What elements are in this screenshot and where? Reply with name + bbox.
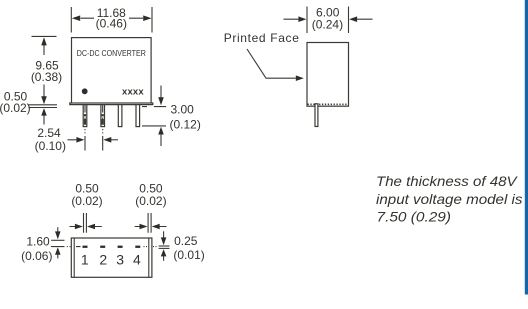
svg-text:(0.01): (0.01) bbox=[173, 248, 204, 262]
front view body bbox=[72, 38, 152, 103]
svg-text:3: 3 bbox=[116, 251, 124, 267]
svg-text:7.50 (0.29): 7.50 (0.29) bbox=[377, 208, 452, 224]
dimension 11.68 (0.46) width, front view bbox=[71, 7, 152, 33]
dimension 0.50 (0.02) right wall width bbox=[135, 213, 167, 233]
svg-text:(0.02): (0.02) bbox=[0, 101, 31, 115]
svg-text:DC-DC CONVERTER: DC-DC CONVERTER bbox=[77, 48, 146, 58]
pin 3 bbox=[118, 105, 122, 127]
bottom view body bbox=[71, 238, 152, 277]
dimension 6.00 (0.24) side view width bbox=[284, 7, 373, 34]
pin 2 bbox=[101, 105, 105, 127]
svg-text:1: 1 bbox=[81, 251, 89, 267]
dimension 1.60 (0.06) bbox=[51, 227, 64, 258]
pin 4 bbox=[136, 105, 140, 127]
dimension 0.50 (0.02) standoff lines bbox=[29, 105, 58, 125]
dimension 0.25 (0.01) pin thickness bbox=[159, 231, 170, 260]
dimension 9.65 (0.38) height, front view bbox=[32, 36, 57, 97]
svg-text:4: 4 bbox=[133, 251, 141, 267]
svg-text:2: 2 bbox=[99, 251, 107, 267]
dimension 2.54 (0.10) pin pitch bbox=[68, 139, 119, 141]
bottom view left wall line bbox=[73, 238, 75, 277]
svg-text:(0.46): (0.46) bbox=[96, 17, 127, 31]
svg-text:xxxx: xxxx bbox=[122, 87, 144, 98]
pin 1 bbox=[83, 105, 87, 127]
pin 1 cross-section bbox=[83, 246, 88, 248]
dimension 0.50 (0.02) left pin width bbox=[70, 213, 102, 233]
leader line to printed face bbox=[247, 49, 296, 78]
pin 3 cross-section bbox=[118, 246, 123, 248]
svg-text:(0.24): (0.24) bbox=[312, 18, 343, 32]
pin 2 centerline (dash-dot) bbox=[102, 105, 104, 151]
svg-text:2.54: 2.54 bbox=[37, 126, 61, 140]
svg-text:(0.02): (0.02) bbox=[135, 194, 166, 208]
pin 4 cross-section bbox=[135, 246, 140, 248]
svg-text:(0.10): (0.10) bbox=[35, 139, 66, 153]
svg-text:1.60: 1.60 bbox=[26, 234, 50, 248]
front view bottom flange bbox=[70, 103, 153, 105]
pin 1 marker dot bbox=[82, 88, 88, 94]
svg-text:(0.02): (0.02) bbox=[71, 194, 102, 208]
side view body bbox=[307, 43, 349, 107]
pin 2 cross-section bbox=[100, 246, 105, 248]
svg-text:0.25: 0.25 bbox=[174, 234, 198, 248]
pin 2 crimp beads bbox=[102, 114, 104, 125]
svg-text:(0.38): (0.38) bbox=[31, 70, 62, 84]
bottom view centerline (dash-dot) bbox=[51, 246, 157, 248]
svg-text:(0.06): (0.06) bbox=[21, 249, 52, 263]
svg-text:input voltage model is: input voltage model is bbox=[376, 191, 523, 207]
svg-text:The thickness of 48V: The thickness of 48V bbox=[376, 173, 518, 189]
svg-text:(0.12): (0.12) bbox=[170, 117, 201, 131]
pin 1 crimp beads bbox=[84, 114, 86, 125]
blue page border line bbox=[525, 0, 528, 295]
side view pin bbox=[315, 104, 318, 127]
bottom view right wall line bbox=[148, 238, 150, 277]
pin 1 centerline (dash-dot) bbox=[84, 105, 86, 151]
dimension 3.00 (0.12) pin length bbox=[142, 86, 166, 147]
svg-text:Printed Face: Printed Face bbox=[224, 31, 300, 45]
svg-text:3.00: 3.00 bbox=[171, 103, 195, 117]
side view dotted seam line bbox=[308, 103, 347, 105]
